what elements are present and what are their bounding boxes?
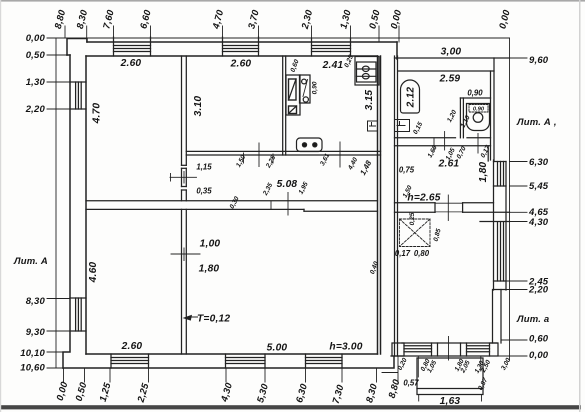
- svg-text:0.90: 0.90: [473, 107, 485, 113]
- svg-text:0,00: 0,00: [26, 33, 46, 44]
- svg-text:4,30: 4,30: [528, 217, 549, 228]
- window top wall 3: [312, 38, 351, 56]
- window bottom wall 1: [111, 354, 149, 368]
- svg-text:9,60: 9,60: [529, 55, 549, 66]
- main building outer walls: [63, 39, 397, 369]
- svg-text:10,60: 10,60: [20, 363, 45, 374]
- svg-text:Лит. А ,: Лит. А ,: [516, 117, 557, 128]
- left wall inner face: [85, 56, 87, 354]
- scanner top gray edge: [0, 0, 585, 2]
- svg-text:2.41: 2.41: [322, 60, 344, 71]
- svg-text:5.08: 5.08: [277, 179, 298, 190]
- top wall inner face: [86, 55, 378, 57]
- svg-text:0,75: 0,75: [399, 166, 415, 175]
- hall ticks on upper wall: [244, 142, 341, 167]
- svg-text:5,45: 5,45: [529, 181, 549, 192]
- svg-text:Лит. а: Лит. а: [516, 314, 549, 325]
- svg-text:0,00: 0,00: [529, 350, 549, 361]
- svg-text:1,30: 1,30: [26, 77, 46, 88]
- svg-text:0,90: 0,90: [312, 81, 319, 94]
- annex bottom-right corner block: [490, 343, 499, 356]
- bathroom enclosure in annex: [460, 98, 490, 138]
- svg-text:10,10: 10,10: [20, 348, 45, 359]
- svg-text:0,60: 0,60: [529, 334, 549, 345]
- porch: [417, 358, 483, 395]
- top dimension ticks: [65, 26, 399, 42]
- bathroom fixture (sink unit): [467, 104, 490, 131]
- svg-text:2.59: 2.59: [439, 74, 461, 85]
- svg-text:5.00: 5.00: [267, 343, 288, 354]
- window bottom wall 3: [306, 354, 343, 368]
- svg-text:Т=0,12: Т=0,12: [197, 314, 230, 325]
- window top wall 1: [114, 37, 151, 56]
- interior wall hall top (room2/kitchen bottom): [186, 151, 380, 155]
- svg-text:1,63: 1,63: [440, 396, 461, 407]
- window top wall 2: [223, 37, 259, 56]
- window left wall lower: [70, 298, 86, 331]
- T-fixture annex side: [395, 120, 410, 132]
- svg-text:0,50: 0,50: [26, 50, 46, 61]
- sink square with diagonal: [289, 106, 297, 114]
- top wall outer face: [87, 41, 397, 43]
- porch dim ticks: [419, 395, 482, 402]
- svg-text:3,00: 3,00: [441, 47, 462, 58]
- annex right wall lower: [493, 290, 502, 344]
- right wall of main building (inner pair): [377, 56, 379, 354]
- window left wall upper: [70, 82, 86, 109]
- svg-text:0,17: 0,17: [395, 249, 411, 258]
- annex top wall: [395, 58, 510, 71]
- scanner bottom dark band: [0, 405, 581, 409]
- svg-text:2,20: 2,20: [25, 104, 46, 115]
- kitchen fixtures container: [286, 75, 310, 115]
- svg-text:3.15: 3.15: [364, 90, 375, 111]
- T=0,12 arrow: [183, 315, 193, 321]
- bottom room dim tick 1,00/1,80: [171, 248, 200, 261]
- svg-text:0,80: 0,80: [414, 249, 430, 258]
- room 2.12 number oval: [401, 80, 420, 113]
- T-fixture kitchen side: [368, 121, 378, 131]
- annex divider wall below room 2.12: [395, 138, 491, 161]
- interior wall rooms1-2 divider upper: [182, 56, 187, 201]
- electric stove bottom of kitchen: [297, 138, 323, 152]
- scanner right faint edge: [579, 0, 581, 412]
- svg-text:1,00: 1,00: [200, 239, 221, 250]
- right dimension dashes: [494, 58, 527, 356]
- svg-text:3.10: 3.10: [193, 96, 204, 117]
- bottom dimension ticks: [64, 356, 399, 384]
- interior wall hall bottom (long wall): [86, 201, 378, 211]
- annex divider ticks: [434, 132, 478, 154]
- svg-text:h=3.00: h=3.00: [329, 342, 362, 353]
- left wall outer face + bottom step: [67, 54, 70, 56]
- bottom wall inner face: [86, 353, 378, 355]
- annex left wall pair: [395, 56, 398, 356]
- bath rect with diagonal: [289, 79, 297, 100]
- interior wall bottom rooms divider: [182, 209, 187, 354]
- annex bottom dim ticks: [418, 337, 481, 378]
- left dimension ticks: [47, 38, 70, 368]
- hall ticks on lower wall 5,08: [271, 193, 288, 216]
- annex bottom wall with windows and door: [391, 343, 497, 356]
- svg-text:8,30: 8,30: [26, 296, 46, 307]
- main top-right corner: [396, 42, 398, 59]
- svg-text:Лит. А: Лит. А: [13, 256, 48, 267]
- svg-text:2.60: 2.60: [120, 58, 142, 69]
- annex right wall upper thin: [491, 58, 495, 162]
- scanner left faint edge: [0, 0, 1, 412]
- gas stove top of kitchen: [355, 57, 379, 86]
- svg-text:9,30: 9,30: [26, 327, 46, 338]
- interior wall room2-kitchen divider: [283, 56, 286, 155]
- svg-text:0,90: 0,90: [467, 89, 483, 98]
- svg-text:2.12: 2.12: [406, 87, 417, 109]
- svg-text:0,25: 0,25: [409, 212, 416, 225]
- dimension baselines: [56, 38, 510, 368]
- hall dim line 1,15/0,35: [170, 172, 197, 184]
- annex wall below room 2.61 with door: [395, 195, 510, 221]
- water column with circles: [300, 75, 311, 103]
- window bottom wall 2: [226, 354, 266, 368]
- top-left corner notch: [67, 39, 87, 56]
- svg-text:2,20: 2,20: [528, 285, 549, 296]
- bottom wall outer face: [63, 357, 394, 368]
- svg-text:0,57: 0,57: [403, 379, 419, 388]
- svg-text:4.70: 4.70: [92, 103, 103, 125]
- svg-text:h=2.65: h=2.65: [407, 193, 440, 204]
- hatched square (furnace): [400, 219, 431, 247]
- svg-text:0,35: 0,35: [196, 187, 212, 196]
- svg-text:2.60: 2.60: [121, 341, 143, 352]
- svg-text:6,30: 6,30: [529, 157, 549, 168]
- annex right wall thick band with windows: [480, 160, 510, 290]
- svg-text:4.60: 4.60: [88, 262, 99, 284]
- svg-text:2.60: 2.60: [230, 59, 252, 70]
- svg-text:1,15: 1,15: [196, 163, 212, 172]
- svg-text:1,80: 1,80: [199, 264, 220, 275]
- svg-text:1,80: 1,80: [478, 162, 489, 183]
